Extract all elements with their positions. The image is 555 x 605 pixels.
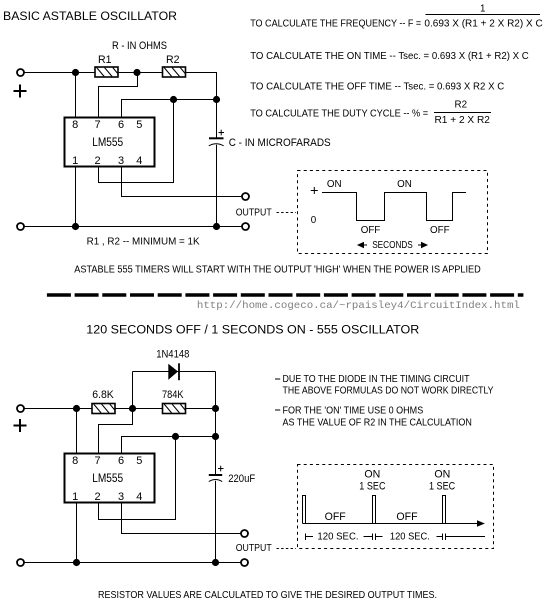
node: junction V+/pin8 [72, 69, 79, 76]
svg-text:OFF: OFF [430, 225, 450, 236]
scope2 arrow [477, 520, 485, 526]
wire: cap to ground lower [215, 481, 217, 563]
svg-text:ON: ON [327, 179, 342, 190]
svg-text:R - IN OHMS: R - IN OHMS [112, 40, 167, 52]
svg-text:1: 1 [480, 4, 485, 15]
scope1 plus level [311, 187, 318, 194]
svg-text:BASIC ASTABLE OSCILLATOR: BASIC ASTABLE OSCILLATOR [3, 9, 177, 23]
wire: ground rail bottom [25, 226, 242, 228]
scope2 pulse 3 [443, 496, 446, 524]
wire: pin2 to threshold junction [99, 100, 174, 183]
diode D1 cathode bar [178, 363, 180, 380]
note: on time 1 [275, 409, 280, 411]
wire: diode branch right riser [215, 372, 217, 476]
node: junction cap top [213, 96, 220, 103]
capacitor C2 plus [218, 466, 224, 472]
svg-text:120 SECONDS OFF / 1 SECONDS ON: 120 SECONDS OFF / 1 SECONDS ON - 555 OSC… [86, 323, 419, 337]
resistor 784K [163, 404, 186, 414]
resistor R2 [163, 67, 186, 77]
wire: R2 to right rail corner [186, 73, 217, 138]
wire: pin1 to ground rail [75, 167, 77, 227]
resistor 6.8K [92, 404, 115, 414]
svg-text:ON: ON [434, 469, 450, 481]
svg-text:8: 8 [72, 455, 78, 467]
svg-text:SECONDS: SECONDS [372, 240, 413, 251]
svg-text:RESISTOR VALUES ARE CALCULATED: RESISTOR VALUES ARE CALCULATED TO GIVE T… [98, 590, 437, 601]
svg-text:120 SEC.: 120 SEC. [317, 532, 358, 543]
svg-text:8: 8 [72, 119, 78, 131]
node: junction R1/R2/pin7 [133, 69, 140, 76]
svg-text:LM555: LM555 [92, 135, 123, 149]
scope2 pulse 1 [303, 496, 306, 524]
terminal output lower [241, 530, 248, 537]
svg-text:4: 4 [136, 491, 142, 503]
wire: diode branch horizontal [133, 371, 216, 373]
scope2 baseline [303, 523, 481, 525]
node: junction cap/ground lower [212, 559, 219, 566]
svg-text:6: 6 [118, 119, 124, 131]
wire: pin3 to output lower [122, 503, 241, 534]
scope1 square wave [322, 193, 466, 221]
svg-text:2: 2 [94, 155, 100, 167]
wire: pin7 riser lower [99, 409, 133, 454]
svg-text:7: 7 [94, 455, 100, 467]
wire: R1 to R2 [119, 72, 163, 74]
note: diode timing 1 [275, 378, 280, 380]
svg-text:FOR THE 'ON' TIME USE 0 OHMS: FOR THE 'ON' TIME USE 0 OHMS [283, 405, 424, 416]
svg-text:1 SEC: 1 SEC [359, 481, 385, 493]
terminal T2 (bottom left) [17, 223, 24, 230]
svg-text:TO CALCULATE THE ON TIME -- Ts: TO CALCULATE THE ON TIME -- Tsec. = 0.69… [250, 51, 529, 62]
wire: pin8 drop lower [76, 409, 78, 454]
node: junction pin1/ground lower [73, 559, 80, 566]
node: junction pin1/ground [72, 223, 79, 230]
wire: 6.8K to 784K [116, 408, 163, 410]
svg-text:3: 3 [118, 155, 124, 167]
wire: pin8 drop [75, 73, 77, 118]
formula 1 fraction bar [426, 14, 541, 16]
svg-text:http://home.cogeco.ca/~rpaisle: http://home.cogeco.ca/~rpaisley4/Circuit… [197, 300, 520, 312]
svg-text:1 SEC: 1 SEC [429, 481, 455, 493]
capacitor C2 [209, 475, 222, 482]
node: junction trigger lower [172, 433, 179, 440]
wire: pin2 to trigger junction lower [99, 437, 176, 520]
wire: pin7 riser from R1/R2 junction [99, 73, 138, 118]
svg-text:OUTPUT: OUTPUT [236, 208, 272, 219]
svg-text:TO CALCULATE THE DUTY CYCLE --: TO CALCULATE THE DUTY CYCLE -- % = [250, 109, 428, 120]
svg-text:0: 0 [311, 215, 317, 226]
terminal T3 (bottom right) [242, 223, 249, 230]
svg-text:ON: ON [397, 179, 412, 190]
leader dotted to scope box lower [277, 548, 297, 550]
svg-text:R2: R2 [455, 100, 468, 111]
separator dashed line [47, 293, 524, 297]
svg-text:THE ABOVE FORMULAS DO NOT WORK: THE ABOVE FORMULAS DO NOT WORK DIRECTLY [283, 386, 494, 397]
svg-text:R1 + 2 X R2: R1 + 2 X R2 [435, 115, 490, 126]
svg-text:120 SEC.: 120 SEC. [390, 532, 430, 543]
wire: pin6 to cap rail [122, 100, 217, 118]
scope2 dim tick 2 [364, 534, 383, 541]
scope1 right arrow [418, 242, 428, 248]
svg-text:220uF: 220uF [228, 473, 255, 485]
svg-text:1N4148: 1N4148 [156, 348, 189, 360]
terminal T5 (bottom left lower) [17, 559, 24, 566]
svg-text:C - IN MICROFARADS: C - IN MICROFARADS [229, 137, 331, 149]
op IC U1 LM555 [65, 118, 155, 167]
battery plus symbol lower [14, 419, 27, 432]
svg-text:3: 3 [118, 491, 124, 503]
svg-text:2: 2 [94, 491, 100, 503]
wire: V+ rail lower [25, 408, 92, 410]
terminal T6 (bottom right lower) [241, 559, 248, 566]
svg-text:OUTPUT: OUTPUT [236, 543, 272, 554]
terminal T4 (V+ lower left) [17, 405, 24, 412]
svg-text:1: 1 [72, 491, 78, 503]
svg-text:784K: 784K [162, 389, 184, 401]
formula 4 fraction bar [434, 112, 491, 114]
svg-text:6: 6 [118, 455, 124, 467]
scope2 dim tick 1 [306, 534, 314, 541]
capacitor C1 plus [219, 130, 225, 136]
terminal T1 (V+ top left) [17, 69, 24, 76]
svg-text:OFF: OFF [396, 511, 418, 523]
node: junction V+/pin8 lower [73, 405, 80, 412]
wire: ground rail lower [25, 562, 241, 564]
svg-text:5: 5 [136, 119, 142, 131]
svg-text:DUE TO THE DIODE IN THE TIMING: DUE TO THE DIODE IN THE TIMING CIRCUIT [283, 374, 470, 385]
capacitor C1 [209, 138, 224, 146]
svg-text:ASTABLE 555 TIMERS WILL START: ASTABLE 555 TIMERS WILL START WITH THE O… [74, 265, 481, 276]
scope1 left arrow [357, 242, 367, 248]
scope box 2 dashed [298, 465, 494, 549]
svg-text:4: 4 [136, 155, 142, 167]
svg-text:OFF: OFF [325, 511, 347, 523]
wire: V+ rail top [25, 72, 95, 74]
terminal output top [242, 193, 249, 200]
svg-text:5: 5 [136, 455, 142, 467]
node: junction trigger/threshold [170, 96, 177, 103]
diode D1 anode triangle [168, 364, 178, 380]
wire: cap to ground rail [216, 145, 218, 227]
svg-text:R2: R2 [166, 54, 180, 66]
wire: pin1 to ground lower [76, 503, 78, 563]
scope box 1 dashed [298, 171, 488, 254]
node: junction 6.8K/diode [129, 405, 136, 412]
battery plus symbol [14, 85, 27, 98]
node: junction diode/cap rail [212, 405, 219, 412]
svg-text:ON: ON [364, 469, 380, 481]
svg-text:LM555: LM555 [92, 471, 123, 485]
svg-text:TO CALCULATE THE OFF TIME -- T: TO CALCULATE THE OFF TIME -- Tsec. = 0.6… [250, 82, 504, 93]
svg-text:6.8K: 6.8K [92, 389, 114, 401]
svg-text:R1: R1 [98, 54, 112, 66]
wire: pin6 to cap rail lower [122, 437, 216, 454]
svg-text:OFF: OFF [361, 225, 381, 236]
svg-text:1: 1 [72, 155, 78, 167]
leader dotted to scope box [277, 212, 297, 214]
wire: diode branch left riser [132, 372, 134, 409]
op IC U2 LM555 [65, 454, 155, 503]
scope2 pulse 2 [373, 496, 376, 524]
svg-text:TO CALCULATE THE FREQUENCY --: TO CALCULATE THE FREQUENCY -- F = [250, 19, 421, 30]
svg-text:7: 7 [94, 119, 100, 131]
svg-text:AS THE VALUE OF R2 IN THE CALC: AS THE VALUE OF R2 IN THE CALCULATION [283, 418, 472, 429]
node: junction cap top lower [212, 433, 219, 440]
node: junction cap/ground [213, 223, 220, 230]
svg-text:R1 , R2 -- MINIMUM = 1K: R1 , R2 -- MINIMUM = 1K [87, 236, 200, 247]
svg-text:0.693 X (R1 + 2 X R2) X C: 0.693 X (R1 + 2 X R2) X C [424, 19, 542, 30]
wire: pin3 to output [122, 167, 242, 197]
scope2 dim tick 3 [437, 534, 486, 541]
resistor R1 [95, 67, 118, 77]
wire: 784K to right rail [186, 408, 216, 410]
